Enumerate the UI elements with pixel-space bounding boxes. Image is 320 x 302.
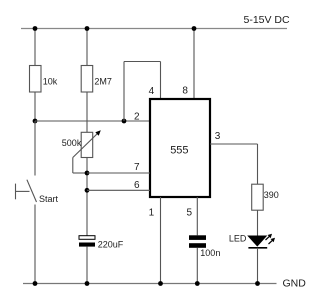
- wire: pin 1 ground line: [160, 197, 162, 284]
- wire: trigger node down to switch top contact: [34, 121, 36, 176]
- resistor R 2M7: [81, 66, 93, 93]
- wire: bottom ground rail: [23, 283, 277, 285]
- wire: pin4 loop horizontal top: [124, 61, 161, 63]
- svg-text:4: 4: [149, 86, 155, 97]
- node: junction switch column / ground rail: [33, 281, 38, 286]
- wire: wiper horizontal leg to discharge node: [73, 172, 87, 174]
- svg-text:500k: 500k: [62, 138, 82, 148]
- svg-text:2: 2: [134, 111, 140, 122]
- wire: 10k bottom to trigger node: [34, 92, 36, 121]
- LED light arrow 2 head: [271, 238, 275, 242]
- svg-text:555: 555: [170, 144, 188, 156]
- node: junction pin6 line: [85, 188, 90, 193]
- wire: pin 8 from supply rail to IC top: [193, 29, 195, 100]
- node: junction second column / supply rail: [85, 26, 90, 31]
- node: junction 220uF column / ground rail: [85, 281, 90, 286]
- node: junction LED column / ground rail: [255, 281, 260, 286]
- switch S1 Start (push-button) lever: [27, 180, 37, 202]
- node: junction wiper / pin7 line: [85, 171, 90, 176]
- wire: 220uF bottom to ground rail: [86, 247, 88, 284]
- svg-text:Start: Start: [39, 194, 59, 204]
- svg-text:5-15V DC: 5-15V DC: [244, 14, 291, 26]
- LED light arrow 1 shaft: [266, 236, 271, 240]
- wire: pin 3 output line: [210, 143, 258, 145]
- wire: second column from supply to 2M7: [86, 29, 88, 67]
- capacitor C 220uF top plate (positive, hollow): [79, 236, 95, 240]
- LED D1 triangle: [247, 236, 267, 247]
- potentiometer P 500k body: [81, 132, 93, 157]
- node: junction left column / supply rail: [33, 26, 38, 31]
- potentiometer P 500k wiper arrowhead: [95, 130, 101, 136]
- wire: pin4 loop vertical up from pin2 node: [123, 62, 125, 122]
- node: junction pin1 column / ground rail: [158, 281, 163, 286]
- capacitor C 220uF bottom plate (solid): [79, 243, 95, 247]
- capacitor C 100n top plate: [189, 235, 206, 240]
- svg-text:7: 7: [134, 162, 140, 173]
- switch S1 plunger shaft: [16, 190, 30, 192]
- switch S1 button cap bar: [15, 184, 17, 200]
- svg-text:100n: 100n: [200, 248, 220, 258]
- wire: LED cathode to ground rail: [257, 248, 259, 284]
- wire: 2M7 bottom to pot top (crosses pin2 line, no junction): [86, 92, 88, 132]
- node: junction pin8 column / supply rail: [192, 26, 197, 31]
- capacitor C 100n bottom plate: [189, 243, 206, 248]
- node: junction 10k / pin2 line / switch: [33, 119, 38, 124]
- wire: pin4 loop down to IC top: [160, 62, 162, 100]
- svg-text:1: 1: [149, 208, 155, 219]
- svg-text:220uF: 220uF: [98, 239, 124, 249]
- wire: pin 5 control line to 100n: [196, 197, 198, 235]
- svg-text:3: 3: [215, 131, 221, 142]
- svg-text:6: 6: [134, 180, 140, 191]
- svg-text:2M7: 2M7: [94, 77, 112, 87]
- svg-text:5: 5: [187, 208, 193, 219]
- potentiometer P 500k wiper arrow shaft: [73, 134, 98, 158]
- wire: 390 bottom to LED anode: [257, 210, 259, 236]
- wire: top supply rail: [21, 28, 287, 30]
- LED D1 cathode bar: [248, 247, 267, 249]
- wire: switch bottom contact to ground rail: [34, 205, 36, 284]
- svg-text:8: 8: [182, 85, 188, 96]
- wire: output down to 390: [257, 144, 259, 184]
- wire: left column from supply to 10k: [34, 29, 36, 67]
- LED light arrow 2 shaft: [269, 240, 274, 244]
- resistor R 10k: [30, 66, 42, 93]
- resistor R 390: [252, 184, 264, 210]
- wire: pin 7 discharge line: [87, 172, 150, 174]
- svg-text:390: 390: [264, 190, 279, 200]
- wire: pin 6 threshold line: [87, 189, 150, 191]
- wire: wiper down leg: [72, 158, 74, 174]
- svg-text:GND: GND: [283, 278, 307, 290]
- wire: 100n bottom to ground rail: [196, 248, 198, 284]
- op-amp/timer IC U1 555 body: [150, 99, 210, 197]
- svg-text:LED: LED: [229, 234, 247, 244]
- wire: pin 2 trigger line: [35, 120, 150, 122]
- node: junction 100n column / ground rail: [195, 281, 200, 286]
- wire: pot bottom to ground column: [86, 158, 88, 236]
- svg-text:10k: 10k: [43, 77, 58, 87]
- node: junction pin2 / pin4 loop: [122, 119, 127, 124]
- LED light arrow 1 head: [268, 234, 272, 238]
